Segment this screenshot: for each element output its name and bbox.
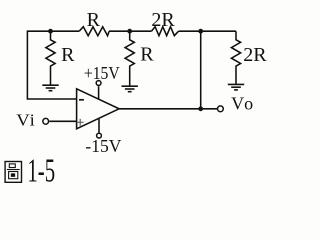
svg-text:Vi: Vi bbox=[16, 111, 35, 130]
svg-text:R: R bbox=[61, 44, 75, 66]
svg-text:R: R bbox=[87, 9, 101, 31]
svg-text:1-5: 1-5 bbox=[27, 153, 55, 190]
svg-text:2R: 2R bbox=[243, 44, 267, 66]
svg-text:R: R bbox=[140, 44, 154, 66]
svg-text:2R: 2R bbox=[151, 9, 175, 31]
svg-text:+15V: +15V bbox=[84, 63, 120, 83]
svg-text:-15V: -15V bbox=[85, 136, 121, 156]
svg-text:Vo: Vo bbox=[231, 93, 253, 113]
